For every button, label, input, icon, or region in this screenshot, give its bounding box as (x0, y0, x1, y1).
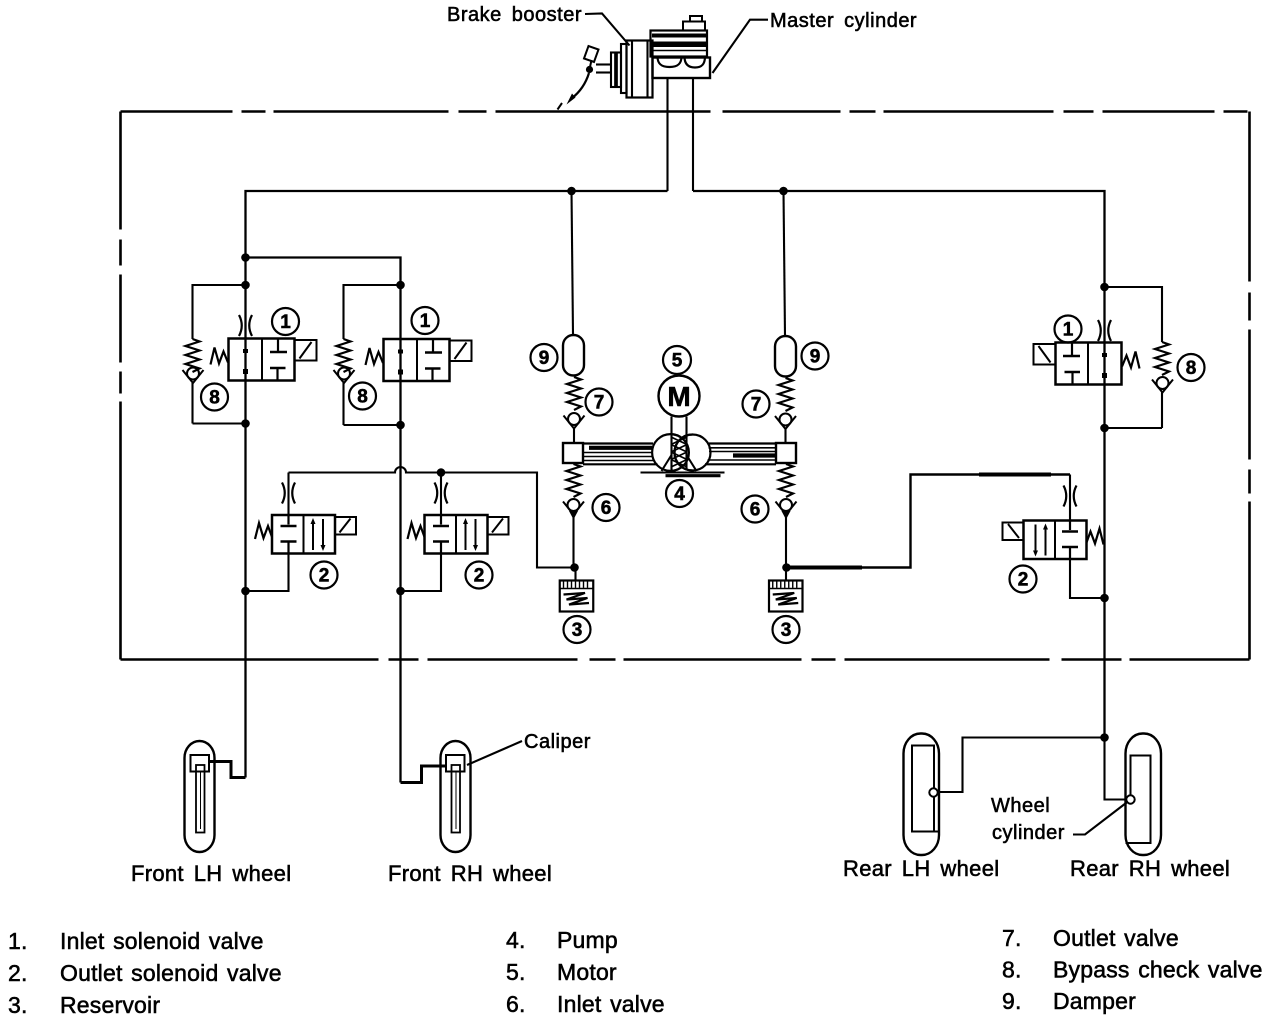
pipe: rear RH brake line (1105, 738, 1128, 800)
label 2 circled FR (466, 562, 493, 589)
label 8 circled FR (349, 383, 376, 410)
node: valve2 FR tap (437, 468, 446, 477)
rear LH wheel (904, 734, 940, 856)
svg-text:3: 3 (781, 620, 792, 641)
node: damper L tap (567, 187, 576, 196)
node: bypass Rear bottom (1100, 424, 1109, 433)
node: reservoir L junction (570, 563, 579, 572)
svg-text:M: M (667, 381, 690, 412)
label 4 circled (666, 480, 693, 507)
svg-text:Outlet valve: Outlet valve (1053, 925, 1179, 951)
node: valve2 Rear return junction (1100, 594, 1109, 603)
pump left cylinder rails (563, 443, 658, 464)
leader: caliper (467, 741, 522, 765)
motor 5 circle (659, 376, 700, 417)
master cylinder drawing (651, 16, 711, 78)
legend column 1 (8, 928, 282, 1018)
node: bypass FR top (396, 281, 405, 290)
wire: valve2 Rear return (1070, 559, 1105, 598)
ABS unit dashed enclosure box (121, 112, 1250, 660)
svg-text:3: 3 (572, 620, 583, 641)
node: rear pipe junction (1100, 733, 1109, 742)
outlet valve 7 L: spring and check ball (564, 377, 585, 443)
svg-text:1: 1 (1063, 320, 1074, 341)
wire: front RH branch (246, 258, 401, 783)
bypass check valve 8 Rear branch (1105, 287, 1174, 428)
wire: damper R line (784, 191, 786, 336)
svg-text:1: 1 (420, 311, 431, 332)
svg-text:9: 9 (810, 347, 821, 368)
damper 9 R (775, 336, 796, 377)
svg-text:4.: 4. (506, 927, 526, 953)
wire: valve2 FL return (246, 554, 289, 592)
svg-text:Motor: Motor (557, 959, 617, 985)
label 8 circled FL (201, 384, 228, 411)
svg-text:Front LH wheel: Front LH wheel (131, 861, 291, 886)
brake booster drawing (558, 41, 653, 110)
svg-text:Inlet valve: Inlet valve (557, 991, 665, 1017)
damper 9 L (563, 335, 584, 376)
orifice marks valve 2 FR (435, 483, 448, 504)
svg-text:9: 9 (539, 348, 550, 369)
svg-text:2.: 2. (8, 960, 28, 986)
inlet valve 6 L: spring and check ball (563, 464, 584, 568)
pipe: rear LH brake line (937, 738, 1105, 793)
svg-text:8: 8 (1186, 358, 1197, 379)
outlet solenoid valve 2 Rear (mirrored) (1003, 521, 1104, 560)
wire: valve2 Rear top port (1069, 475, 1071, 521)
svg-text:2: 2 (474, 566, 485, 587)
svg-text:Brake booster: Brake booster (447, 4, 582, 26)
label 1 circled Rear (1055, 316, 1082, 343)
reservoir 3 R (769, 581, 803, 612)
svg-text:1: 1 (280, 312, 291, 333)
label 7 circled L (586, 389, 613, 416)
svg-text:7: 7 (751, 395, 762, 416)
node: valve2 FR return junction (396, 587, 405, 596)
pipe: front LH brake line (209, 762, 246, 778)
svg-text:2: 2 (1018, 570, 1029, 591)
node: bypass FL bottom (241, 419, 250, 428)
svg-text:7: 7 (594, 393, 605, 414)
svg-text:5: 5 (672, 351, 683, 372)
svg-text:6: 6 (750, 500, 761, 521)
legend column 3 (1002, 925, 1263, 1014)
orifice marks valve 1 Rear (1098, 320, 1111, 341)
bypass check valve 8 FL branch (183, 285, 246, 424)
wire: reservoir R stub (785, 568, 787, 581)
leader: wheel cylinder (1073, 802, 1128, 835)
inlet valve 6 R: spring and check ball (776, 464, 797, 568)
node: valve2 FL return junction (241, 587, 250, 596)
node: bypass Rear top (1100, 283, 1109, 292)
svg-text:4: 4 (674, 484, 685, 505)
outlet solenoid valve 2 FL (255, 515, 356, 554)
wheel cylinder circle rear LH (929, 788, 937, 796)
orifice marks valve 2 FL (282, 483, 295, 504)
svg-text:Rear LH wheel: Rear LH wheel (843, 856, 999, 881)
node: bypass FL top (241, 281, 250, 290)
svg-text:6.: 6. (506, 991, 526, 1017)
svg-text:cylinder: cylinder (992, 822, 1065, 844)
svg-text:8: 8 (357, 387, 368, 408)
svg-text:9.: 9. (1002, 988, 1022, 1014)
label 1 circled FR (412, 307, 439, 334)
label 9 circled R (802, 343, 829, 370)
label 8 circled Rear (1178, 354, 1205, 381)
reservoir 3 L (560, 581, 594, 612)
node: damper R tap (779, 187, 788, 196)
label 9 circled L (531, 344, 558, 371)
node: reservoir R junction (782, 563, 791, 572)
wire: front supply line (246, 191, 668, 778)
wire: valve2 FR top port (440, 473, 442, 516)
svg-text:1.: 1. (8, 928, 28, 954)
svg-text:Front RH wheel: Front RH wheel (388, 861, 552, 886)
wire: valve2 FL top port (287, 473, 289, 516)
svg-text:8.: 8. (1002, 957, 1022, 983)
label 5 circled (663, 346, 691, 374)
leader: brake booster (585, 14, 630, 46)
node: bypass FR bottom (396, 421, 405, 430)
orifice marks valve 2 Rear (1064, 486, 1077, 507)
wire: rear outlet return line (787, 475, 1071, 568)
wire: damper L line (572, 191, 574, 335)
legend column 2 (506, 927, 665, 1017)
bypass check valve 8 FR branch (334, 285, 401, 425)
svg-text:Reservoir: Reservoir (60, 992, 160, 1018)
label 3 circled L (564, 616, 591, 643)
svg-text:6: 6 (601, 498, 612, 519)
pipe: front RH brake line (401, 766, 447, 783)
inlet solenoid valve 1 FL (211, 339, 317, 381)
svg-text:Bypass check valve: Bypass check valve (1053, 957, 1263, 983)
label 2 circled Rear (1010, 566, 1037, 593)
svg-text:2: 2 (319, 566, 330, 587)
svg-text:Wheel: Wheel (991, 795, 1050, 817)
wire: master cylinder right pipe (692, 78, 694, 191)
inlet solenoid valve 1 FR (366, 339, 472, 381)
orifice marks valve 1 FL (239, 315, 252, 336)
outlet solenoid valve 2 FR (408, 515, 509, 554)
pump right cylinder rails (705, 443, 796, 464)
label 6 circled R (742, 496, 769, 523)
svg-text:Master cylinder: Master cylinder (770, 10, 917, 32)
wheel cylinder circle rear RH (1126, 795, 1134, 803)
svg-text:Outlet solenoid valve: Outlet solenoid valve (60, 960, 282, 986)
leader: master cylinder (713, 20, 769, 73)
label 3 circled R (773, 616, 800, 643)
svg-text:3.: 3. (8, 992, 28, 1018)
wire: valve2 FR return (401, 554, 442, 592)
inlet solenoid valve 1 Rear (mirrored) (1034, 343, 1140, 385)
wire: reservoir L stub (574, 568, 576, 581)
outlet valve 7 R: spring and check ball (775, 378, 796, 443)
label 6 circled L (593, 494, 620, 521)
svg-text:Pump: Pump (557, 927, 618, 953)
label 2 circled FL (311, 562, 338, 589)
svg-text:Inlet solenoid valve: Inlet solenoid valve (60, 928, 264, 954)
label 7 circled R (743, 391, 770, 418)
svg-text:Damper: Damper (1053, 988, 1136, 1014)
label 1 circled FL (272, 308, 299, 335)
rear RH wheel (1126, 734, 1162, 856)
wire: rear return thick overlay (788, 566, 862, 570)
svg-text:7.: 7. (1002, 925, 1022, 951)
svg-text:Rear RH wheel: Rear RH wheel (1070, 856, 1230, 881)
wire: front outlet return line with hop (289, 467, 575, 567)
svg-text:8: 8 (209, 388, 220, 409)
front LH wheel (185, 741, 215, 852)
wire: rear supply line (693, 191, 1105, 738)
front RH wheel (441, 741, 471, 852)
svg-text:Caliper: Caliper (524, 731, 591, 753)
node: front supply junction (241, 253, 250, 262)
wire: master cylinder left pipe (666, 78, 668, 191)
svg-text:5.: 5. (506, 959, 526, 985)
pump 4 assembly (641, 417, 725, 476)
